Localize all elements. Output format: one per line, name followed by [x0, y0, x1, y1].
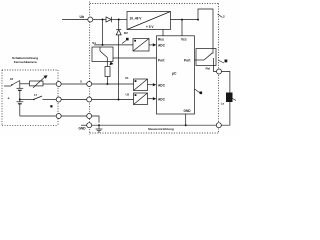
node junction on sense wire [102, 44, 104, 46]
svg-text:2: 2 [223, 15, 225, 19]
switch S1 box [92, 47, 113, 62]
node junction uC GND [185, 124, 187, 126]
svg-text:10..48 V: 10..48 V [130, 17, 143, 21]
load lamp La [226, 93, 233, 103]
node junction zener tap [118, 19, 120, 21]
resistor R2 [30, 81, 44, 86]
connector pin row A right [87, 82, 92, 87]
svg-text:U1: U1 [125, 76, 129, 80]
svg-text:Port: Port [184, 58, 191, 62]
svg-text:D2: D2 [124, 31, 128, 35]
arrow W1 to ADC [149, 44, 153, 46]
ref dot label [50, 105, 52, 107]
resistor R1 [105, 67, 110, 77]
svg-text:17: 17 [34, 93, 38, 97]
arrow W3 to ADC [148, 98, 153, 100]
wire diode to converter [112, 19, 128, 21]
svg-text:Res: Res [158, 37, 164, 41]
svg-text:Fernsehkamera: Fernsehkamera [14, 60, 37, 64]
row A wire camera to divider W2 [43, 83, 56, 85]
svg-text:Ub: Ub [80, 15, 85, 19]
connector pin row B left [56, 97, 61, 102]
wire row C to ground bus [92, 116, 99, 123]
node junction at diode anode [102, 19, 104, 21]
connector pin row A left [56, 82, 61, 87]
node battery tap [19, 99, 21, 101]
wire port sense S box to uC Port [113, 57, 157, 59]
wire Ub sense branch vertical [102, 20, 104, 45]
wire resistor to row A [106, 77, 108, 85]
svg-text:ADC: ADC [158, 43, 166, 47]
svg-text:16: 16 [10, 77, 14, 81]
node junction resistor row A [106, 83, 108, 85]
node junction zener to row B [118, 99, 120, 101]
microcontroller U2 [157, 36, 195, 114]
wire relay to pin [214, 66, 217, 72]
arrow variable resistor [33, 77, 45, 88]
relay contact K1 box [196, 49, 216, 66]
svg-text:Rel: Rel [206, 66, 211, 70]
svg-text:La: La [221, 102, 225, 106]
node junction Vcc [181, 19, 183, 21]
svg-text:Port: Port [158, 58, 165, 62]
diode D1 [106, 17, 111, 22]
battery B1 [17, 87, 24, 89]
zener diode Z1 [118, 20, 120, 30]
wire Ub input [62, 19, 88, 21]
wire to resistor R2 [20, 83, 30, 85]
row C wire battery return [20, 115, 56, 117]
connector pin row C left [56, 114, 61, 119]
wire pin to load [222, 72, 230, 93]
divider W3 [134, 93, 148, 105]
divider W1 [133, 39, 149, 52]
ref numeral right mid [218, 60, 224, 63]
connector pin bottom right [216, 123, 221, 128]
connector pin Ub [88, 17, 93, 22]
enclosure Schalteinrichtung Fernsehkamera dashed box [2, 70, 58, 125]
dc-dc converter U1 [127, 12, 171, 30]
divider W2 [134, 79, 148, 91]
wire Vcc drop [181, 20, 183, 36]
connector pin relay out [217, 69, 222, 74]
wire +5V rail [171, 19, 199, 21]
svg-text:GND: GND [79, 127, 87, 131]
wire Ub to diode [93, 19, 106, 21]
ref numeral leader near zener [122, 41, 126, 44]
svg-text:+: + [8, 97, 10, 101]
wire uC GND drop [185, 114, 187, 125]
wire bottom right to load [221, 102, 230, 125]
connector pin row C right [87, 114, 92, 119]
row B wire camera to divider W3 [43, 99, 57, 101]
svg-text:GND: GND [184, 109, 192, 113]
svg-text:+ 5 V: + 5 V [146, 25, 154, 29]
wire to battery [19, 81, 21, 89]
wire battery bottom to row C [19, 104, 21, 116]
switch S3 row B [20, 99, 34, 101]
wire switch to resistor with arrow [106, 62, 108, 67]
connector pin row B right [87, 97, 92, 102]
wire sense to divider W1 [94, 44, 133, 46]
svg-text:U: U [80, 79, 82, 83]
switch S2 top left [4, 85, 11, 87]
svg-text:µC: µC [172, 72, 177, 76]
wire reset drop from converter [162, 30, 164, 36]
connector pin row D GND [81, 124, 87, 126]
svg-text:ADC: ADC [158, 97, 166, 101]
svg-text:S1: S1 [92, 41, 96, 45]
svg-text:Vcc: Vcc [181, 37, 187, 41]
ground [98, 125, 100, 129]
ref leader load [233, 99, 237, 101]
wire ground bus [92, 124, 217, 126]
wire riser to relay supply [198, 9, 213, 49]
svg-text:ADC: ADC [158, 83, 166, 87]
ref numeral top right [218, 14, 223, 18]
node junction riser [197, 19, 199, 21]
svg-text:U2: U2 [126, 93, 130, 97]
svg-text:Steuereinrichtung: Steuereinrichtung [148, 127, 174, 131]
ref numeral leader uC [195, 89, 200, 93]
enclosure Steuereinrichtung dashed border [90, 2, 219, 135]
node junction ground symbol [98, 124, 100, 126]
arrow W2 to ADC [148, 84, 153, 86]
